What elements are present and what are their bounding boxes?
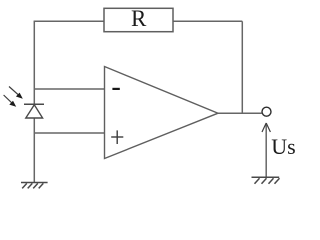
resistor R1 body (104, 8, 173, 31)
light arrow upper (9, 87, 23, 99)
wire left vertical upper (33, 21, 35, 104)
wire op-amp output (218, 112, 262, 114)
svg-text:Us: Us (271, 134, 295, 159)
wire resistor to feedback corner (173, 20, 242, 22)
photodiode D1 cathode bar (24, 103, 44, 105)
svg-text:R: R (131, 6, 147, 31)
wire Us arrow shaft (265, 125, 267, 178)
output terminal circle (262, 107, 271, 116)
wire left vertical lower (33, 118, 35, 183)
light arrow lower (4, 95, 17, 107)
wire non-inverting input branch (34, 132, 104, 134)
op-amp U1 triangle (105, 67, 219, 159)
ground right (252, 177, 280, 184)
photodiode D1 triangle (26, 105, 43, 118)
Us arrowhead (262, 123, 270, 132)
op-amp U1 non-inverting pin plus (111, 130, 123, 144)
wire inverting input branch (34, 88, 104, 90)
op-amp U1 inverting pin minus (112, 88, 119, 90)
ground left (21, 183, 48, 189)
wire feedback vertical (241, 21, 243, 113)
wire top-left horizontal (34, 20, 104, 22)
